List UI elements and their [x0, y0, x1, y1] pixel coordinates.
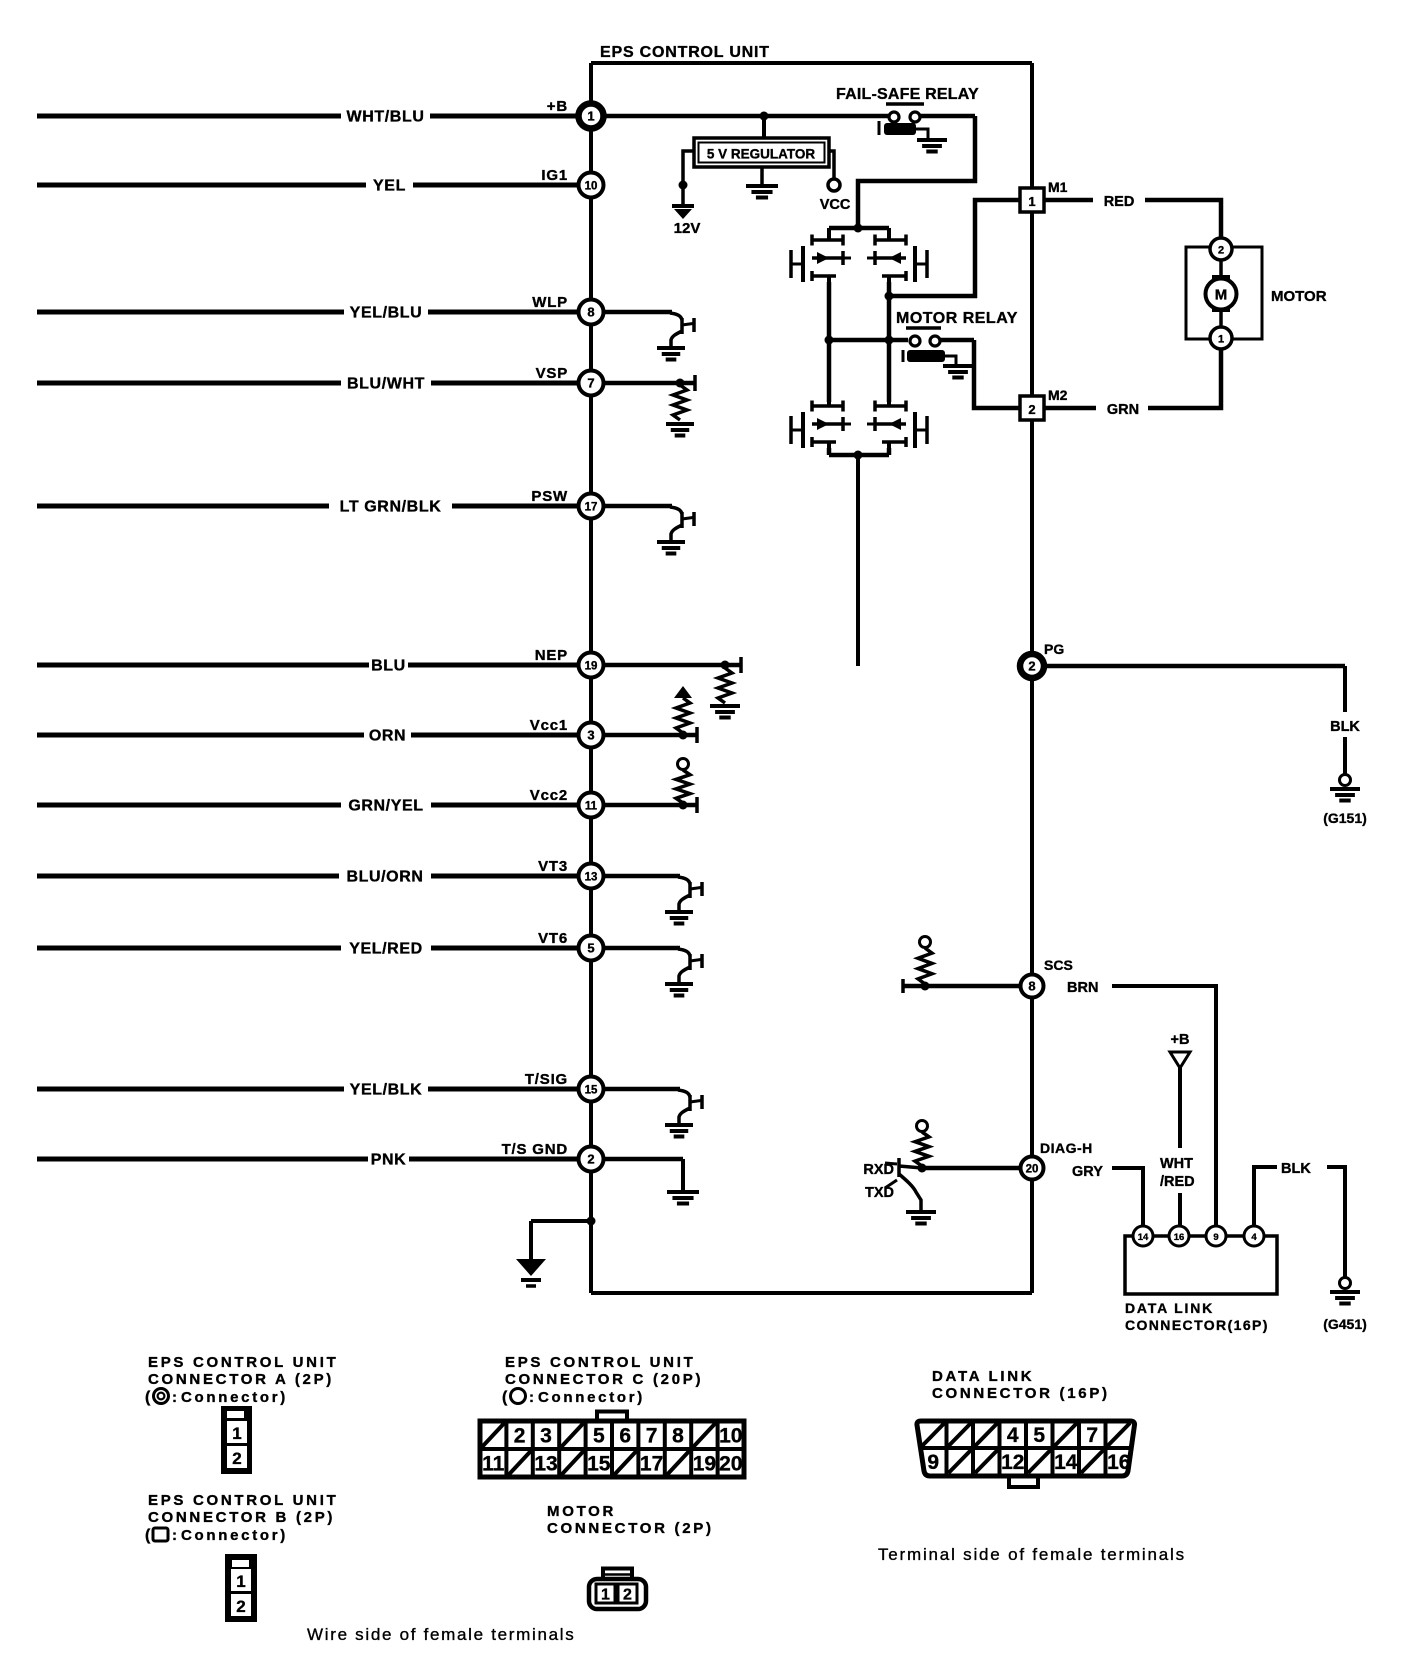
svg-text:Connector): Connector) — [181, 1389, 288, 1406]
svg-text:2: 2 — [1028, 659, 1035, 674]
svg-text::: : — [172, 1389, 177, 1406]
svg-text:20: 20 — [719, 1453, 742, 1476]
svg-text:GRN/YEL: GRN/YEL — [348, 798, 423, 815]
svg-text:VT6: VT6 — [538, 930, 568, 947]
svg-text:T/SIG: T/SIG — [525, 1071, 568, 1088]
svg-text:4: 4 — [1251, 1232, 1257, 1243]
svg-text:16: 16 — [1107, 1451, 1130, 1474]
svg-text:(: ( — [145, 1389, 151, 1406]
svg-text:EPS CONTROL UNIT: EPS CONTROL UNIT — [148, 1354, 338, 1371]
svg-text:Vcc2: Vcc2 — [530, 787, 568, 804]
svg-text:5: 5 — [1033, 1424, 1045, 1447]
svg-text:10: 10 — [719, 1425, 742, 1448]
svg-text:1: 1 — [232, 1424, 241, 1443]
svg-text:7: 7 — [646, 1425, 658, 1448]
svg-text:CONNECTOR (16P): CONNECTOR (16P) — [932, 1385, 1110, 1402]
svg-text:GRN: GRN — [1107, 402, 1139, 418]
svg-text:15: 15 — [585, 1085, 598, 1097]
svg-text:2: 2 — [1218, 245, 1224, 257]
svg-text:VCC: VCC — [820, 197, 851, 213]
svg-text:Vcc1: Vcc1 — [530, 717, 568, 734]
svg-text:16: 16 — [1174, 1232, 1185, 1243]
svg-text:CONNECTOR (2P): CONNECTOR (2P) — [547, 1520, 714, 1537]
svg-text:9: 9 — [927, 1451, 939, 1474]
svg-text:13: 13 — [585, 872, 598, 884]
svg-text:6: 6 — [619, 1425, 631, 1448]
svg-text:BLU/WHT: BLU/WHT — [347, 376, 425, 393]
svg-text:PG: PG — [1044, 641, 1064, 657]
svg-text:1: 1 — [1028, 194, 1035, 209]
svg-text:15: 15 — [587, 1453, 611, 1476]
svg-text:8: 8 — [587, 305, 594, 320]
svg-text:+B: +B — [547, 98, 568, 115]
svg-text:9: 9 — [1213, 1232, 1218, 1243]
svg-text:T/S GND: T/S GND — [502, 1141, 568, 1158]
svg-text:4: 4 — [1007, 1424, 1019, 1447]
svg-text:(: ( — [145, 1527, 151, 1544]
svg-text:YEL/BLU: YEL/BLU — [350, 305, 423, 322]
svg-text:3: 3 — [540, 1425, 552, 1448]
svg-text:M1: M1 — [1048, 179, 1068, 195]
svg-text:17: 17 — [640, 1453, 663, 1476]
svg-text:7: 7 — [587, 376, 594, 391]
svg-text:1: 1 — [587, 109, 594, 124]
svg-text:EPS CONTROL UNIT: EPS CONTROL UNIT — [148, 1492, 338, 1509]
svg-text:13: 13 — [534, 1453, 557, 1476]
svg-text:1: 1 — [1218, 334, 1224, 346]
svg-text:12: 12 — [1001, 1451, 1024, 1474]
svg-text:14: 14 — [1138, 1232, 1149, 1243]
svg-text:GRY: GRY — [1072, 1164, 1103, 1180]
svg-text:MOTOR: MOTOR — [547, 1503, 616, 1520]
svg-text:RED: RED — [1104, 194, 1135, 210]
svg-text:2: 2 — [1028, 402, 1035, 417]
svg-text:14: 14 — [1054, 1451, 1078, 1474]
svg-text:(G451): (G451) — [1323, 1316, 1367, 1332]
svg-text:1: 1 — [236, 1572, 245, 1591]
svg-text:NEP: NEP — [535, 647, 568, 664]
svg-text:MOTOR: MOTOR — [1271, 288, 1327, 305]
svg-text::: : — [529, 1389, 534, 1406]
svg-text:19: 19 — [585, 661, 598, 673]
svg-text:M: M — [1215, 287, 1228, 304]
svg-text:10: 10 — [585, 181, 598, 193]
svg-text:2: 2 — [514, 1425, 526, 1448]
svg-text:20: 20 — [1026, 1164, 1039, 1176]
svg-text:11: 11 — [482, 1453, 505, 1476]
svg-text:+B: +B — [1171, 1032, 1190, 1048]
svg-text:17: 17 — [585, 502, 598, 514]
svg-text:5 V REGULATOR: 5 V REGULATOR — [707, 147, 816, 162]
svg-text:2: 2 — [236, 1597, 245, 1616]
svg-text:MOTOR RELAY: MOTOR RELAY — [896, 310, 1018, 327]
svg-text:DIAG-H: DIAG-H — [1040, 1140, 1093, 1156]
svg-text:CONNECTOR(16P): CONNECTOR(16P) — [1125, 1317, 1269, 1333]
svg-text:8: 8 — [672, 1425, 684, 1448]
svg-text:(: ( — [502, 1389, 508, 1406]
svg-text:VSP: VSP — [536, 365, 568, 382]
svg-text:FAIL-SAFE RELAY: FAIL-SAFE RELAY — [836, 86, 979, 103]
svg-text:TXD: TXD — [865, 1185, 894, 1201]
svg-text:WLP: WLP — [532, 294, 568, 311]
svg-text:/RED: /RED — [1160, 1174, 1195, 1190]
svg-text:CONNECTOR A (2P): CONNECTOR A (2P) — [148, 1371, 334, 1388]
svg-text:DATA LINK: DATA LINK — [1125, 1300, 1214, 1316]
svg-text:1: 1 — [601, 1587, 610, 1604]
svg-text:DATA LINK: DATA LINK — [932, 1368, 1034, 1385]
svg-text:CONNECTOR C (20P): CONNECTOR C (20P) — [505, 1371, 703, 1388]
svg-text:11: 11 — [585, 801, 598, 813]
svg-text:5: 5 — [593, 1425, 605, 1448]
svg-text:WHT/BLU: WHT/BLU — [347, 109, 425, 126]
svg-text:LT GRN/BLK: LT GRN/BLK — [340, 499, 442, 516]
svg-text:BLU/ORN: BLU/ORN — [346, 869, 423, 886]
svg-text:M2: M2 — [1048, 387, 1068, 403]
svg-text:2: 2 — [587, 1152, 594, 1167]
svg-text:Terminal side of female termin: Terminal side of female terminals — [878, 1545, 1186, 1564]
svg-text:2: 2 — [623, 1587, 632, 1604]
svg-text:8: 8 — [1028, 979, 1035, 994]
svg-text:BLK: BLK — [1281, 1161, 1311, 1177]
svg-text:12V: 12V — [674, 220, 701, 237]
svg-text:2: 2 — [232, 1449, 241, 1468]
svg-text:BLU: BLU — [371, 658, 406, 675]
svg-text:ORN: ORN — [369, 728, 406, 745]
svg-text:BRN: BRN — [1067, 980, 1098, 996]
svg-text:Wire side of female terminals: Wire side of female terminals — [307, 1625, 575, 1644]
svg-text:YEL/BLK: YEL/BLK — [350, 1082, 423, 1099]
svg-text:(G151): (G151) — [1323, 810, 1367, 826]
svg-text:EPS CONTROL UNIT: EPS CONTROL UNIT — [505, 1354, 695, 1371]
svg-text:BLK: BLK — [1330, 719, 1360, 735]
svg-text:EPS CONTROL UNIT: EPS CONTROL UNIT — [600, 44, 770, 61]
svg-text:WHT: WHT — [1160, 1156, 1193, 1172]
svg-text:5: 5 — [587, 941, 594, 956]
svg-text:PNK: PNK — [371, 1152, 407, 1169]
svg-text:Connector): Connector) — [181, 1527, 288, 1544]
svg-text:YEL/RED: YEL/RED — [349, 941, 423, 958]
svg-text:SCS: SCS — [1044, 957, 1073, 973]
svg-text:IG1: IG1 — [541, 167, 568, 184]
svg-text:YEL: YEL — [373, 178, 406, 195]
svg-text:19: 19 — [693, 1453, 716, 1476]
svg-text::: : — [172, 1527, 177, 1544]
svg-text:7: 7 — [1086, 1424, 1098, 1447]
svg-text:PSW: PSW — [531, 488, 568, 505]
svg-text:CONNECTOR B (2P): CONNECTOR B (2P) — [148, 1509, 335, 1526]
svg-text:VT3: VT3 — [538, 858, 568, 875]
svg-text:3: 3 — [587, 728, 594, 743]
svg-text:Connector): Connector) — [538, 1389, 645, 1406]
